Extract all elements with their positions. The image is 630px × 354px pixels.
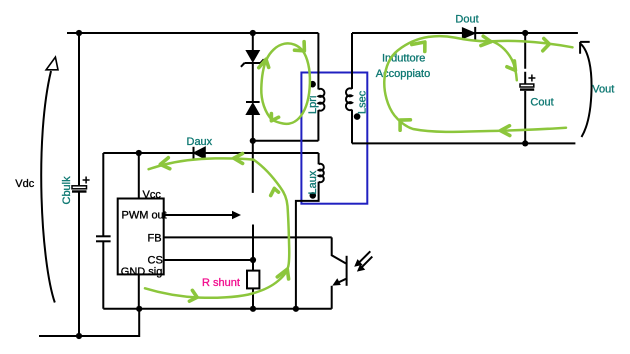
node R shunt on rail <box>250 306 256 312</box>
svg-text:GND sig: GND sig <box>121 266 163 278</box>
wire left rail Vdc+ to Vdc- <box>78 33 80 336</box>
svg-text:Vcc: Vcc <box>143 189 162 201</box>
node bottom-left <box>76 333 82 339</box>
node aux return on rail <box>293 306 299 312</box>
green current loop A (clamp loop) <box>259 42 310 124</box>
optocoupler phototransistor <box>332 237 347 308</box>
Vdc measurement arrow <box>41 57 58 302</box>
wire Vcc decoupling branch upper <box>102 153 104 236</box>
wire GND pin <box>138 274 140 308</box>
node secondary top <box>522 30 528 36</box>
svg-text:CS: CS <box>148 255 163 267</box>
svg-text:Daux: Daux <box>187 136 213 148</box>
wire Vcc pin <box>138 153 140 199</box>
capacitor Cbulk <box>72 177 90 192</box>
wire top rail primary <box>67 32 318 34</box>
node GND pin on rail <box>136 306 142 312</box>
capacitor Vcc decoupling <box>96 236 111 241</box>
svg-text:FB: FB <box>148 232 162 244</box>
wire FB <box>164 236 332 238</box>
inductor Lpri <box>309 33 324 141</box>
node top clamp <box>250 30 256 36</box>
wire CS <box>164 259 253 261</box>
capacitor Cout <box>520 33 535 143</box>
svg-text:Dout: Dout <box>455 13 478 25</box>
diode clamp lower <box>246 102 260 115</box>
wire Daux rail <box>103 152 318 154</box>
inductor Laux <box>296 153 324 309</box>
zener diode clamp <box>241 51 264 67</box>
green current loop C (secondary loop) <box>384 36 572 135</box>
wire switch drain stub <box>252 141 254 193</box>
svg-text:Vout: Vout <box>592 83 614 95</box>
wire primary ground rail <box>103 308 331 310</box>
wire secondary top rail <box>352 32 578 34</box>
svg-text:Cbulk: Cbulk <box>61 176 73 205</box>
wire clamp mid <box>252 63 254 102</box>
node Vcc <box>136 150 142 156</box>
wire clamp to node <box>252 115 254 141</box>
Vout measurement arrow <box>580 42 591 137</box>
IC controller box U1 <box>118 199 164 275</box>
PWM out arrow <box>164 211 241 219</box>
svg-text:PWM out: PWM out <box>122 210 167 222</box>
resistor R shunt <box>247 260 259 309</box>
wire node to Lpri bottom <box>253 140 319 142</box>
svg-text:Laux: Laux <box>307 170 319 194</box>
svg-text:R shunt: R shunt <box>202 277 240 289</box>
wire secondary bottom rail <box>352 142 575 144</box>
wire Vcc decoupling branch lower <box>102 242 104 309</box>
node secondary bottom <box>522 140 528 146</box>
transformer core box <box>301 73 367 204</box>
node CS / R shunt <box>250 257 256 263</box>
node top-left <box>76 30 82 36</box>
green current loop B (aux loop) <box>145 154 289 302</box>
wire clamp upper <box>252 33 254 51</box>
node clamp bottom <box>250 138 256 144</box>
diode Dout <box>462 27 475 40</box>
svg-text:Lsec: Lsec <box>357 90 369 114</box>
wire bottom Vdc- <box>39 309 139 336</box>
optocoupler light arrows <box>354 251 372 271</box>
svg-text:Vdc: Vdc <box>15 178 34 190</box>
wire switch source stub <box>252 225 254 261</box>
diode Daux <box>194 147 206 159</box>
svg-text:Cout: Cout <box>530 97 553 109</box>
inductor Lsec <box>346 33 360 143</box>
